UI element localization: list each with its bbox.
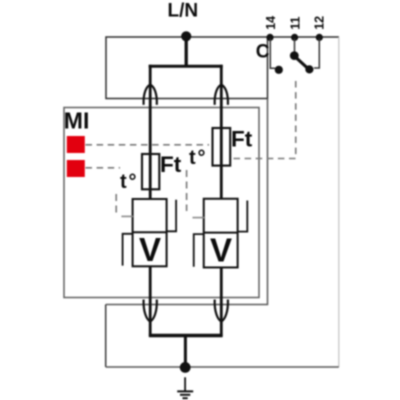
- plug contact left bottom: [144, 300, 157, 322]
- enclosure bottom section left edge: [105, 305, 107, 368]
- svg-text:Ft: Ft: [231, 127, 253, 152]
- indicator LED 1 (red): [67, 136, 85, 153]
- wire terminal 12 to contact: [314, 39, 319, 69]
- junction node L/N: [181, 31, 191, 41]
- terminal 12 node: [316, 34, 323, 41]
- wire terminal 14 to contact: [270, 39, 275, 69]
- terminal 11 node: [291, 34, 298, 41]
- svg-text:V: V: [139, 231, 161, 268]
- signal line left t-sensor drop (dashed): [115, 194, 117, 213]
- wire right branch lower: [220, 267, 223, 337]
- enclosure middle frame right/bottom: [106, 99, 268, 305]
- plug contact right top: [215, 85, 228, 105]
- wire bottom merge bar: [149, 334, 223, 337]
- wire terminal 11 to pivot: [294, 39, 296, 53]
- varistor V1 thermal stub: [121, 215, 133, 217]
- varistor V2 thermal stub: [193, 217, 205, 219]
- contact point 12: [305, 65, 313, 73]
- svg-text:V: V: [210, 232, 232, 269]
- signal line LED1 to right t-sensor (dashed): [86, 144, 210, 146]
- plug contact left top: [144, 85, 157, 105]
- wire left branch lower: [149, 266, 152, 337]
- svg-text:Ft: Ft: [160, 152, 182, 177]
- fuse Ft right body: [213, 128, 231, 166]
- signal line right t-sensor drop (dashed): [186, 170, 188, 211]
- ground bar 2: [180, 394, 190, 396]
- varistor V2 body (right): [194, 199, 248, 268]
- wire top split bar: [149, 65, 223, 68]
- terminal 14 node: [266, 34, 273, 41]
- junction node earth: [180, 362, 191, 373]
- ground bar 3: [183, 397, 188, 399]
- wire top rail extension: [268, 36, 340, 38]
- svg-text:C: C: [256, 42, 270, 63]
- svg-text:11: 11: [288, 17, 302, 30]
- signal line t-sensor to contact C (dashed): [234, 78, 296, 159]
- svg-text:MI: MI: [64, 108, 90, 134]
- plug contact right bottom: [215, 300, 228, 322]
- contact point 14: [275, 66, 283, 74]
- wire bottom earth rail: [106, 366, 339, 368]
- wire earth drop: [184, 336, 187, 368]
- svg-text:t°: t°: [189, 147, 207, 169]
- svg-text:t°: t°: [120, 171, 138, 193]
- switch arm C: [295, 57, 309, 70]
- wire right branch upper: [220, 65, 223, 200]
- wire left branch upper: [149, 65, 152, 200]
- wire L/N drop: [185, 37, 188, 67]
- signal line LED2 to left t-sensor (dashed): [86, 167, 121, 169]
- indicator LED 2 (red): [67, 160, 85, 177]
- fuse Ft left body: [142, 154, 159, 189]
- varistor V1 body (left): [123, 199, 177, 266]
- contact pivot 11: [290, 51, 299, 60]
- svg-text:14: 14: [264, 16, 278, 30]
- svg-text:12: 12: [313, 16, 327, 30]
- module MI box: [64, 108, 259, 298]
- enclosure faint right edge: [338, 37, 340, 367]
- ground stem: [184, 377, 186, 391]
- ground bar 1: [177, 390, 193, 392]
- enclosure top section box: [106, 37, 268, 99]
- svg-text:L/N: L/N: [168, 1, 199, 22]
